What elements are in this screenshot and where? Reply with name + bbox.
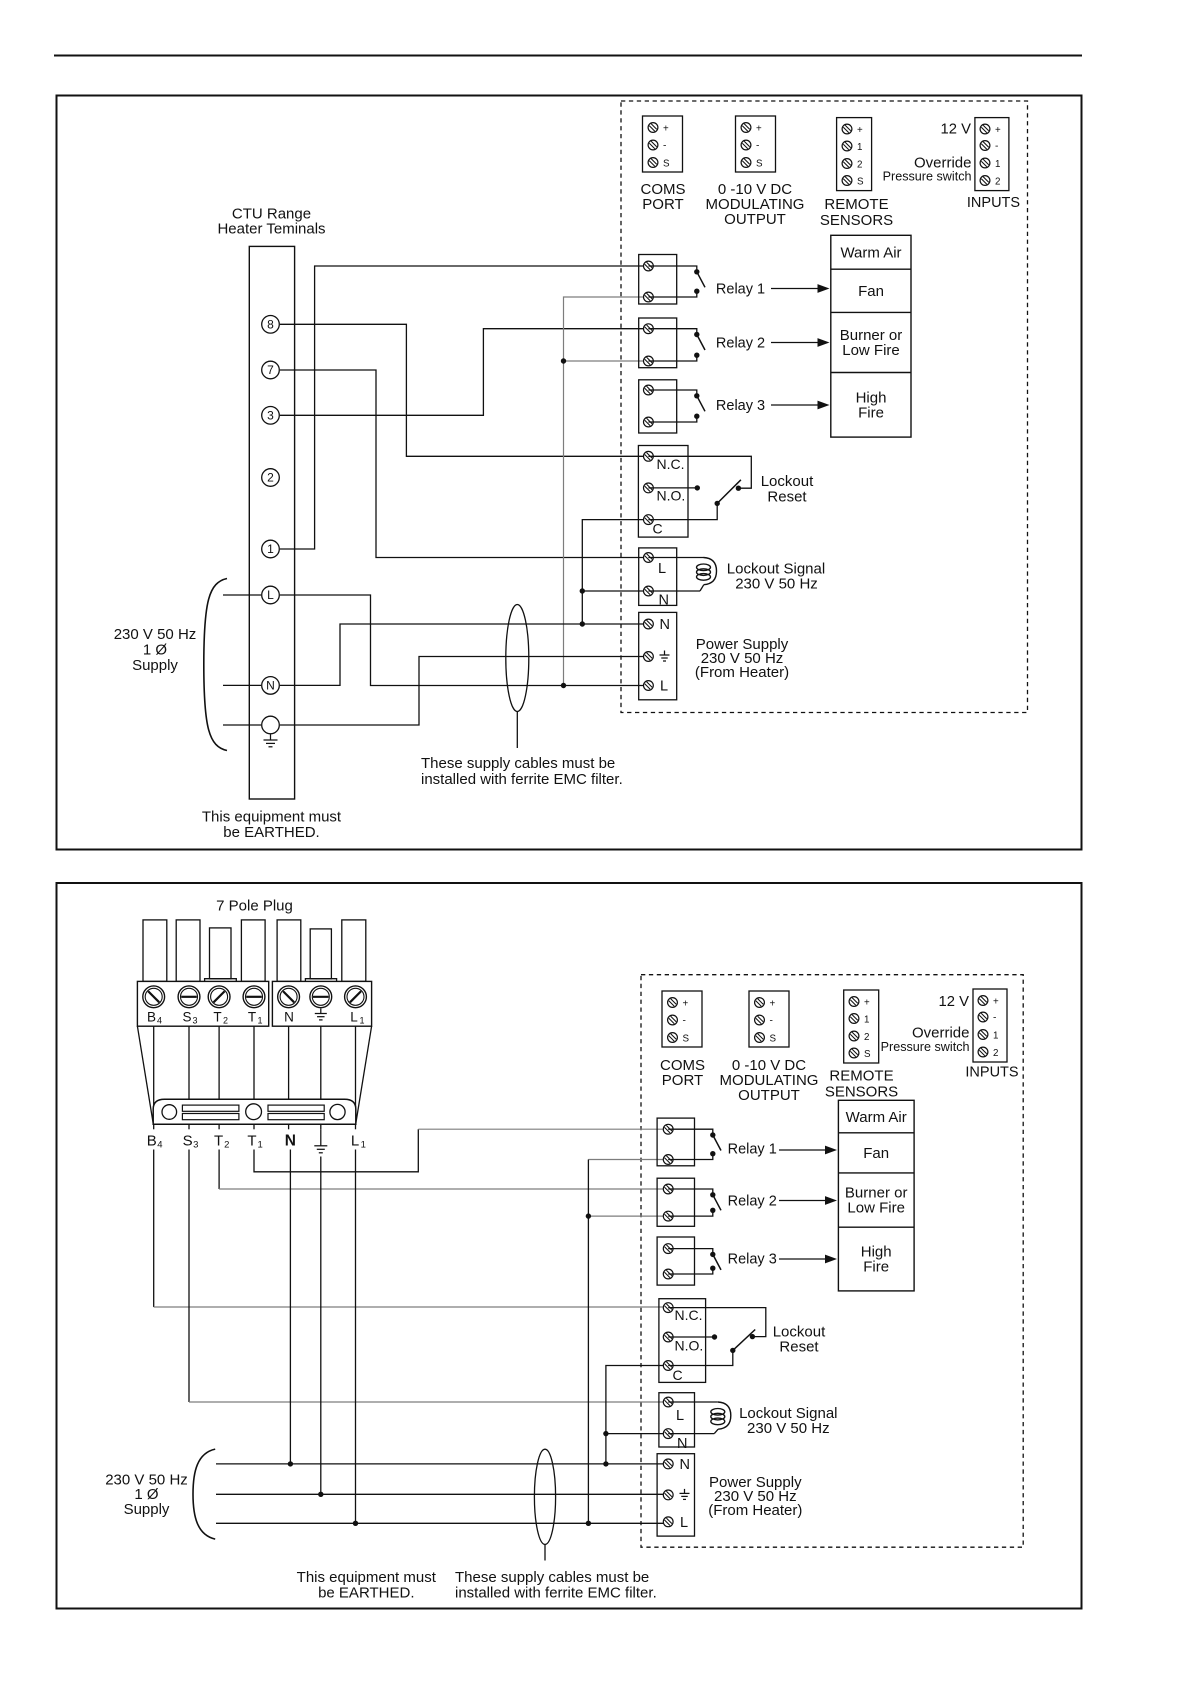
svg-text:Relay 1: Relay 1 <box>716 282 765 298</box>
svg-text:+: + <box>770 999 776 1010</box>
wire B4 to N.C. <box>154 1150 669 1308</box>
svg-text:OUTPUT: OUTPUT <box>738 1087 800 1104</box>
junction Relay 2 feed 2 <box>586 1213 591 1218</box>
svg-text:N.O.: N.O. <box>657 487 686 503</box>
COMS screw - <box>648 140 658 150</box>
N.O. screw 2 <box>663 1332 673 1342</box>
wire terminal 1 to Relay 1 upper <box>280 266 648 549</box>
REMOTE SENSORS label <box>820 196 893 229</box>
power earth label 2 <box>680 1489 690 1500</box>
wire C to neutral <box>582 520 648 624</box>
COMS screw S <box>648 158 658 168</box>
Relay 2 contact 2 <box>668 1189 721 1216</box>
svg-text:S: S <box>864 1049 871 1060</box>
svg-text:Reset: Reset <box>779 1339 819 1356</box>
N.O. screw <box>644 483 654 493</box>
lockout L N labels 2 <box>676 1408 687 1452</box>
Relay 3 screws <box>644 385 654 427</box>
svg-text:SENSORS: SENSORS <box>825 1084 898 1101</box>
svg-text:This equipment must: This equipment must <box>202 809 342 826</box>
svg-text:7 Pole Plug: 7 Pole Plug <box>216 898 293 915</box>
svg-text:1: 1 <box>360 1016 365 1026</box>
svg-text:be EARTHED.: be EARTHED. <box>223 824 319 841</box>
Power Supply label <box>695 636 789 681</box>
junction C-neutral at supply N 2 <box>603 1461 608 1466</box>
reset pivot link to C 2 <box>668 1350 733 1365</box>
svg-text:REMOTE: REMOTE <box>829 1068 893 1085</box>
Relay 3 terminal box 2 <box>657 1237 694 1285</box>
junction feed at supply L 2 <box>586 1521 591 1526</box>
Relay 3 arrow <box>771 401 830 410</box>
lockout signal coil <box>697 558 717 592</box>
clamp slot left upper <box>182 1105 239 1111</box>
diagram 2 border frame <box>57 883 1082 1609</box>
plug notch T2 <box>205 979 237 982</box>
wire N.C. to reset contact 2 <box>668 1308 766 1337</box>
svg-text:Lockout: Lockout <box>761 473 814 490</box>
lockout L screw <box>644 553 654 563</box>
COMS pin labels <box>663 124 670 170</box>
lockout coil exit wire 2 <box>668 1433 714 1435</box>
svg-text:L: L <box>267 588 274 602</box>
svg-text:These supply cables must be: These supply cables must be <box>421 755 615 772</box>
terminal 7 <box>262 361 280 379</box>
svg-text:L: L <box>660 679 668 695</box>
power N screw <box>644 619 654 629</box>
svg-text:Fire: Fire <box>863 1259 889 1276</box>
INPUTS terminal block 2 <box>973 989 1007 1062</box>
svg-text:(From Heater): (From Heater) <box>695 664 789 681</box>
terminal 8 <box>262 316 280 334</box>
REMOTE SENSORS terminal block <box>837 118 872 191</box>
svg-text:N.C.: N.C. <box>675 1307 703 1323</box>
lockout N screw 2 <box>663 1429 673 1439</box>
lockout N screw <box>644 586 654 596</box>
svg-text:PORT: PORT <box>662 1072 703 1089</box>
cable clamp body <box>153 1099 356 1124</box>
svg-text:2: 2 <box>864 1032 869 1043</box>
N.C. N.O. C labels 2 <box>673 1307 704 1383</box>
ferrite leader line <box>516 712 518 749</box>
svg-text:N: N <box>660 617 670 633</box>
0-10V 2 screws <box>755 998 765 1043</box>
wire C to neutral 2 <box>606 1366 668 1464</box>
svg-text:INPUTS: INPUTS <box>967 195 1020 211</box>
clamp circle right <box>330 1104 345 1119</box>
svg-text:N: N <box>677 1436 687 1452</box>
CTU terminal strip outline <box>249 246 294 799</box>
svg-text:This equipment must: This equipment must <box>297 1569 437 1586</box>
svg-text:L: L <box>350 1010 358 1025</box>
diagram 1 border frame <box>57 96 1082 850</box>
svg-text:2: 2 <box>267 471 274 485</box>
COMS PORT terminal block 2 <box>662 991 702 1047</box>
svg-text:T: T <box>214 1133 223 1150</box>
wire N.O. stub <box>648 487 697 489</box>
COMS 2 screws <box>668 998 678 1043</box>
reset pivot dot 2 <box>730 1348 735 1353</box>
COMS PORT label <box>641 181 686 213</box>
wire Relay 1 lower to live feed <box>564 297 649 686</box>
svg-text:Warm Air: Warm Air <box>840 245 901 262</box>
svg-text:Relay 2: Relay 2 <box>728 1194 777 1210</box>
svg-text:SENSORS: SENSORS <box>820 212 893 229</box>
svg-text:1: 1 <box>864 1015 869 1026</box>
svg-text:Pressure switch: Pressure switch <box>883 170 972 184</box>
svg-text:1: 1 <box>258 1140 263 1151</box>
Relay 2 arrow <box>771 338 830 347</box>
clamp circle left <box>162 1105 177 1120</box>
Relay 3 contact 2 <box>668 1249 721 1274</box>
0-10V DC terminal block <box>736 116 776 172</box>
plug pin N <box>277 920 301 982</box>
lockout relay terminal box <box>638 446 688 538</box>
svg-text:Relay 3: Relay 3 <box>728 1252 777 1268</box>
plug screw S3 <box>178 986 200 1008</box>
COMS 2 pin labels <box>683 999 690 1045</box>
reset contact left dot <box>695 485 700 490</box>
N.C. screw 2 <box>663 1303 673 1313</box>
svg-text:These supply cables must be: These supply cables must be <box>455 1569 649 1586</box>
svg-text:2: 2 <box>995 177 1000 188</box>
junction C-neutral at supply N <box>580 621 585 626</box>
Relay 3 contact <box>648 390 705 422</box>
INPUTS screw 2 <box>980 176 990 186</box>
REMOTE pin labels <box>857 125 864 188</box>
REMOTE screw + <box>842 124 852 134</box>
power earth screw <box>644 652 654 662</box>
lockout coil entry wire <box>648 557 703 559</box>
earthed note <box>202 809 342 842</box>
INPUTS 2 screws <box>978 996 988 1057</box>
svg-text:S: S <box>857 177 864 188</box>
svg-text:Override: Override <box>912 1025 970 1042</box>
svg-text:1: 1 <box>267 542 274 556</box>
reset contact right dot 2 <box>750 1334 755 1339</box>
wire Lockout Signal N stub <box>582 590 648 592</box>
terminal 1 <box>262 540 280 558</box>
svg-text:T: T <box>213 1010 221 1025</box>
svg-text:INPUTS: INPUTS <box>965 1064 1018 1080</box>
supply line N <box>216 1463 668 1465</box>
Relay 2 screws <box>644 324 654 366</box>
plug screw T1 <box>243 986 265 1008</box>
supply line earth <box>216 1493 668 1495</box>
0-10V label 2 <box>720 1057 819 1104</box>
power L screw <box>644 681 654 691</box>
supply stub earth <box>223 724 261 726</box>
svg-text:12 V: 12 V <box>939 994 970 1010</box>
svg-text:REMOTE: REMOTE <box>824 196 888 213</box>
terminal 3 <box>262 407 280 425</box>
svg-text:Fan: Fan <box>858 283 884 300</box>
svg-text:4: 4 <box>157 1140 162 1151</box>
earth symbol below terminal <box>264 735 278 747</box>
REMOTE 2 screws <box>849 997 859 1058</box>
clamp circle middle <box>246 1104 262 1120</box>
REMOTE SENSORS terminal block 2 <box>844 990 879 1063</box>
supply bracket 2 <box>193 1449 215 1539</box>
plug screw B4 <box>143 986 165 1008</box>
0-10V DC terminal block 2 <box>749 991 789 1047</box>
reset contact left dot 2 <box>712 1334 717 1339</box>
lockout signal terminal box 2 <box>659 1393 695 1447</box>
plug pin S3 <box>176 920 200 982</box>
Burner or Low Fire label 2 <box>845 1185 908 1217</box>
REMOTE 2 pin labels <box>864 998 871 1061</box>
svg-text:2: 2 <box>857 160 862 171</box>
svg-text:+: + <box>756 124 762 135</box>
reset pivot link to C <box>648 503 717 519</box>
lockout coil exit wire <box>648 590 700 592</box>
svg-text:B: B <box>147 1010 156 1025</box>
svg-text:Low Fire: Low Fire <box>842 342 900 359</box>
CTU Range Heater Teminals label <box>217 206 325 238</box>
reset switch blade <box>717 480 741 504</box>
Relay 1 arrow 2 <box>779 1146 837 1155</box>
heater function box <box>831 235 911 437</box>
terminal N <box>262 677 280 695</box>
diagram 2 controller dashed enclosure <box>641 975 1023 1547</box>
C screw 2 <box>663 1361 673 1371</box>
diagram 1 controller dashed enclosure <box>621 101 1028 713</box>
supply bracket <box>204 579 227 751</box>
ferrite note 2 <box>455 1569 657 1602</box>
230V supply label 2 <box>105 1472 188 1518</box>
Relay 3 terminal box <box>639 380 677 433</box>
svg-text:2: 2 <box>223 1016 228 1026</box>
svg-text:S: S <box>683 1034 690 1045</box>
0-10V screw + <box>741 123 751 133</box>
strip labels <box>147 1010 365 1026</box>
clamp slot left lower <box>182 1114 239 1120</box>
ferrite EMC filter ellipse <box>506 605 529 712</box>
earthed note 2 <box>297 1569 437 1602</box>
terminal earth circle <box>262 716 280 734</box>
junction N pin <box>288 1461 293 1466</box>
wire earth pin down <box>320 1157 322 1495</box>
svg-text:Fan: Fan <box>863 1145 889 1162</box>
svg-text:L: L <box>351 1133 359 1150</box>
svg-text:PORT: PORT <box>642 196 683 213</box>
INPUTS screw - <box>980 141 990 151</box>
svg-text:8: 8 <box>267 318 274 332</box>
svg-text:N: N <box>266 679 275 693</box>
svg-text:be EARTHED.: be EARTHED. <box>318 1585 414 1602</box>
plug shell left side <box>137 1026 153 1123</box>
svg-text:N: N <box>659 593 669 609</box>
svg-text:230 V 50 Hz: 230 V 50 Hz <box>735 576 818 593</box>
power L screw 2 <box>663 1517 673 1527</box>
svg-text:S: S <box>770 1034 777 1045</box>
svg-text:+: + <box>864 998 870 1009</box>
svg-text:1: 1 <box>258 1016 263 1026</box>
svg-text:7: 7 <box>267 363 274 377</box>
power supply terminal box 2 <box>657 1454 694 1536</box>
COMS PORT terminal block <box>643 116 683 172</box>
wire T1 to Relay 1 upper <box>254 1129 668 1172</box>
svg-text:-: - <box>993 1013 996 1024</box>
Relay 1 arrow <box>771 284 830 293</box>
REMOTE screw S <box>842 176 852 186</box>
plug notch earth <box>305 979 336 982</box>
clamp slot right upper <box>268 1105 324 1111</box>
wire N pin down <box>289 1150 291 1464</box>
junction C-neutral at Lockout N 2 <box>603 1431 608 1436</box>
plug pin L1 <box>342 920 366 982</box>
junction C-neutral at Lockout N <box>580 588 585 593</box>
High Fire label 2 <box>861 1244 892 1276</box>
supply stub L <box>223 594 261 596</box>
junction Relay 2 feed <box>561 358 566 363</box>
plug shell right side <box>356 1026 372 1123</box>
reset contact right dot <box>736 486 741 491</box>
svg-text:T: T <box>248 1010 256 1025</box>
svg-text:C: C <box>673 1367 683 1383</box>
svg-text:Supply: Supply <box>124 1501 170 1518</box>
0-10V screw - <box>741 140 751 150</box>
COMS screw + <box>648 123 658 133</box>
svg-text:S: S <box>663 159 670 170</box>
lead label earth <box>314 1129 327 1153</box>
svg-text:T: T <box>247 1133 256 1150</box>
svg-text:-: - <box>995 141 998 152</box>
N.C. screw <box>644 451 654 461</box>
svg-text:S: S <box>756 159 763 170</box>
Relay 1 contact 2 <box>668 1129 721 1159</box>
svg-text:-: - <box>663 141 666 152</box>
Relay 2 screws 2 <box>663 1184 673 1221</box>
svg-text:S: S <box>182 1010 191 1025</box>
plug terminal strip left <box>137 981 268 1026</box>
terminal 2 <box>262 469 280 487</box>
svg-text:Pressure switch: Pressure switch <box>881 1040 970 1054</box>
svg-text:installed with ferrite EMC fil: installed with ferrite EMC filter. <box>421 771 623 788</box>
supply stub N <box>223 684 261 686</box>
wire earth supply <box>280 657 648 726</box>
Lockout Reset label <box>761 473 814 506</box>
Relay 1 screws 2 <box>663 1124 673 1164</box>
Relay 2 terminal box <box>639 318 677 368</box>
INPUTS pin labels <box>995 125 1001 188</box>
svg-text:C: C <box>653 521 663 537</box>
Lockout Reset label 2 <box>773 1324 826 1356</box>
plug screw N <box>278 986 300 1008</box>
svg-text:1: 1 <box>995 159 1000 170</box>
svg-text:-: - <box>770 1016 773 1027</box>
svg-text:N: N <box>284 1010 294 1025</box>
High Fire label <box>856 390 887 422</box>
power supply terminal box <box>639 612 677 699</box>
plug terminal strip right <box>272 981 371 1026</box>
svg-text:Relay 1: Relay 1 <box>728 1142 777 1158</box>
reset pivot dot <box>715 501 720 506</box>
ferrite leader line 2 <box>544 1544 546 1560</box>
0-10V pin labels <box>756 124 763 170</box>
wire terminal 7 to Lockout Signal L <box>280 370 648 558</box>
svg-text:Low Fire: Low Fire <box>847 1200 905 1217</box>
plug pin T2 <box>210 928 232 979</box>
Relay 1 terminal box 2 <box>657 1118 694 1166</box>
Relay 1 contact <box>648 266 705 297</box>
C screw <box>644 515 654 525</box>
wire N supply <box>280 624 648 685</box>
svg-text:+: + <box>857 125 863 136</box>
COMS PORT label 2 <box>660 1057 705 1089</box>
svg-text:2: 2 <box>993 1048 998 1059</box>
Relay 3 screws 2 <box>663 1244 673 1279</box>
svg-text:+: + <box>993 997 999 1008</box>
N.C. N.O. C labels <box>653 456 686 537</box>
svg-text:+: + <box>683 999 689 1010</box>
Burner or Low Fire label <box>840 327 903 359</box>
junction earth pin <box>318 1492 323 1497</box>
svg-text:230 V 50 Hz: 230 V 50 Hz <box>114 626 197 643</box>
svg-text:Relay 3: Relay 3 <box>716 398 765 414</box>
wire Relay 1 lower to live feed 2 <box>588 1160 668 1524</box>
supply line L <box>216 1522 668 1524</box>
svg-text:Warm Air: Warm Air <box>846 1109 907 1126</box>
wire terminal 3 to Relay 2 upper <box>280 329 648 416</box>
plug pin T1 <box>241 920 265 982</box>
lockout L N labels <box>658 561 669 609</box>
wire N.C. to reset contact <box>648 456 751 488</box>
Relay 2 arrow 2 <box>779 1196 837 1205</box>
Relay 1 screws <box>644 261 654 302</box>
reset switch blade 2 <box>733 1330 755 1351</box>
svg-text:N: N <box>285 1133 296 1150</box>
svg-text:L: L <box>680 1515 688 1531</box>
svg-text:L: L <box>658 561 666 577</box>
Lockout Signal label 2 <box>739 1405 837 1437</box>
wire S3 to Lockout L <box>189 1150 668 1403</box>
plug screw earth <box>310 986 332 1008</box>
Relay 3 arrow 2 <box>779 1255 837 1264</box>
Relay 2 terminal box 2 <box>657 1178 694 1226</box>
INPUTS terminal block <box>975 118 1009 191</box>
header rule <box>54 55 1082 57</box>
svg-text:-: - <box>756 141 759 152</box>
svg-text:1: 1 <box>361 1140 366 1151</box>
svg-text:2: 2 <box>224 1140 229 1151</box>
Lockout Signal label <box>727 561 825 593</box>
terminal L <box>262 586 280 604</box>
Power Supply label 2 <box>708 1474 802 1519</box>
230V supply label <box>114 626 197 674</box>
0-10V DC MODULATING OUTPUT label <box>706 181 805 228</box>
REMOTE screw 2 <box>842 159 852 169</box>
svg-text:N: N <box>680 1457 690 1473</box>
power N screw 2 <box>663 1459 673 1469</box>
svg-text:(From Heater): (From Heater) <box>708 1502 802 1519</box>
svg-text:+: + <box>995 125 1001 136</box>
wire L1 pin down <box>355 1150 357 1524</box>
svg-text:L: L <box>676 1408 684 1424</box>
wire N.O. stub 2 <box>668 1336 714 1338</box>
lockout L screw 2 <box>663 1397 673 1407</box>
svg-text:-: - <box>683 1016 686 1027</box>
svg-text:4: 4 <box>157 1016 162 1026</box>
0-10V 2 pin labels <box>770 999 777 1045</box>
lockout relay terminal box 2 <box>659 1299 706 1383</box>
svg-text:12 V: 12 V <box>941 122 972 138</box>
svg-text:3: 3 <box>267 409 274 423</box>
ferrite note <box>421 755 623 788</box>
svg-text:Fire: Fire <box>858 405 884 422</box>
svg-text:+: + <box>663 124 669 135</box>
plug lead wires to clamp <box>154 1026 356 1129</box>
heater function box 2 <box>838 1100 914 1291</box>
